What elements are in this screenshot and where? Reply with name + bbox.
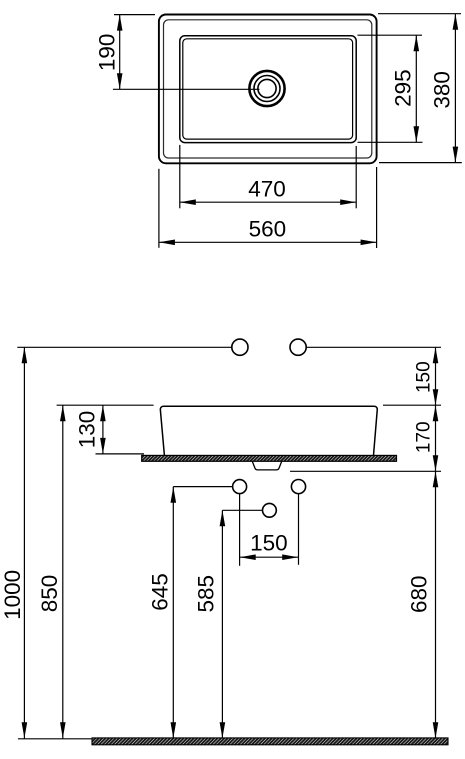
svg-text:850: 850	[37, 575, 62, 613]
svg-text:150: 150	[250, 531, 288, 556]
svg-text:645: 645	[147, 573, 172, 611]
svg-text:1000: 1000	[0, 570, 25, 620]
svg-text:470: 470	[248, 177, 286, 202]
svg-text:170: 170	[413, 421, 434, 453]
svg-text:380: 380	[430, 71, 455, 109]
svg-text:680: 680	[406, 575, 431, 613]
svg-text:190: 190	[95, 34, 120, 72]
svg-text:295: 295	[391, 69, 416, 107]
svg-text:150: 150	[413, 361, 434, 393]
svg-text:560: 560	[249, 217, 287, 242]
svg-text:585: 585	[194, 575, 219, 613]
svg-text:130: 130	[75, 411, 100, 449]
